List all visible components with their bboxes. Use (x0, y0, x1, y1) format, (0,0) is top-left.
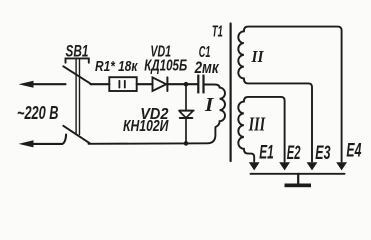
svg-text:Т1: Т1 (212, 24, 223, 41)
svg-text:Е1: Е1 (259, 141, 274, 163)
svg-text:R1* 18к: R1* 18к (95, 59, 138, 75)
svg-text:SB1: SB1 (66, 43, 89, 61)
svg-text:II: II (251, 47, 265, 66)
svg-text:КН102И: КН102И (123, 118, 169, 135)
svg-text:~220 В: ~220 В (17, 102, 59, 123)
svg-text:Е4: Е4 (346, 140, 361, 162)
svg-text:III: III (248, 113, 266, 135)
svg-text:КД105Б: КД105Б (144, 58, 187, 75)
svg-text:I: I (204, 94, 215, 116)
svg-text:Е3: Е3 (315, 142, 330, 164)
svg-text:2мк: 2мк (194, 58, 220, 77)
svg-text:Е2: Е2 (287, 142, 301, 164)
